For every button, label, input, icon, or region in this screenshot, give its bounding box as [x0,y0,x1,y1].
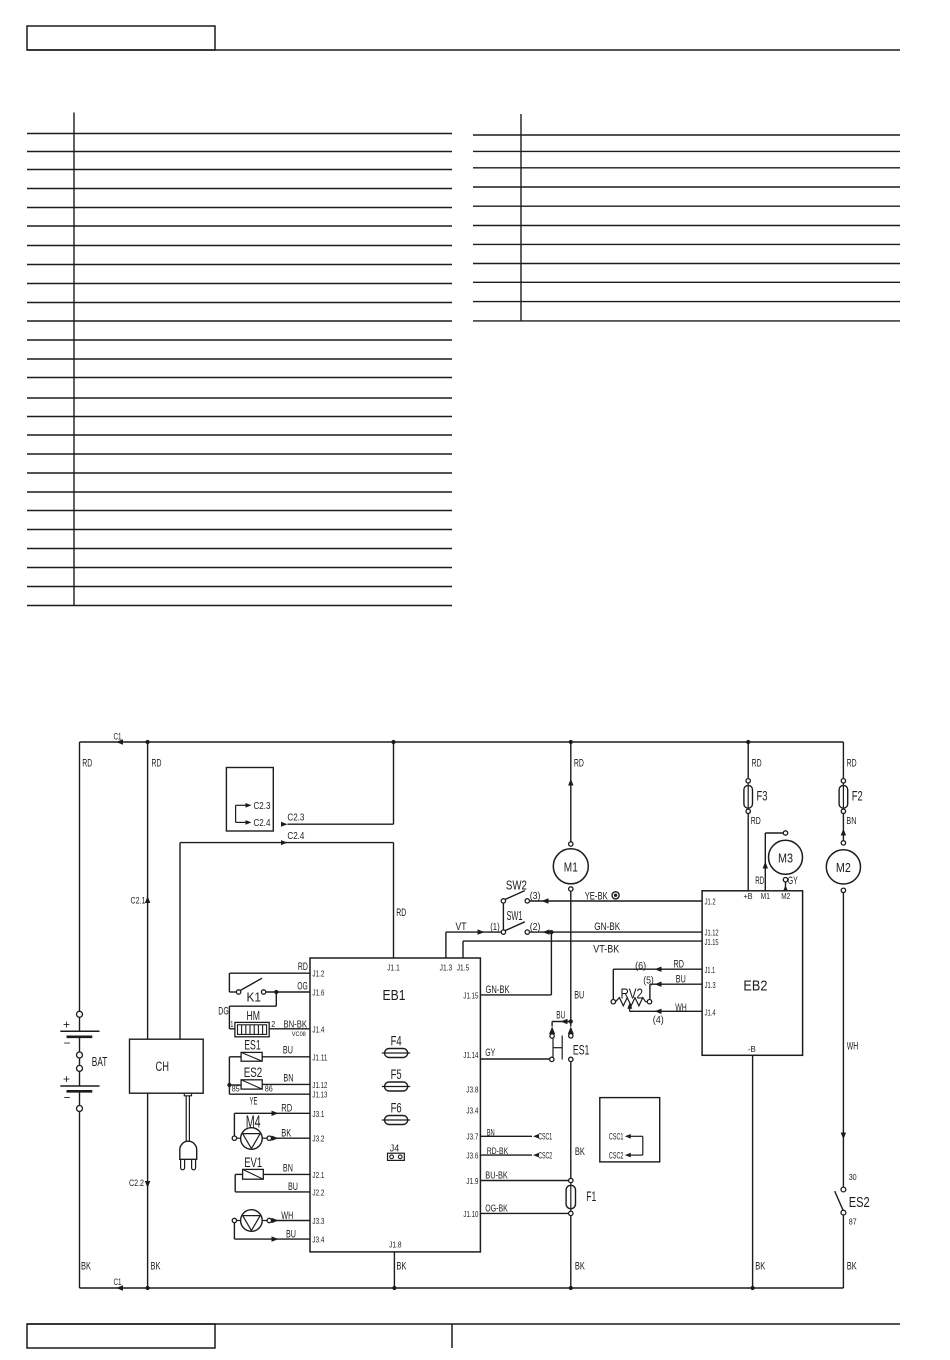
svg-text:J1.11: J1.11 [312,1052,327,1062]
svg-text:BN: BN [283,1162,293,1174]
svg-text:87: 87 [849,1216,857,1226]
svg-text:BU: BU [288,1181,298,1193]
svg-text:C2.2: C2.2 [129,1178,144,1188]
svg-text:RD: RD [752,758,762,770]
svg-text:85: 85 [232,1084,240,1093]
svg-text:CSC2: CSC2 [609,1150,624,1160]
svg-text:DG: DG [218,1005,229,1017]
svg-text:(2): (2) [530,921,541,933]
svg-text:GN-BK: GN-BK [486,984,510,996]
svg-text:BU: BU [556,1010,565,1022]
svg-text:WH: WH [847,1040,859,1052]
svg-text:BK: BK [281,1128,291,1140]
svg-text:RV2: RV2 [621,987,644,1003]
svg-text:J1.1: J1.1 [387,962,400,972]
svg-text:SW2: SW2 [506,879,527,893]
svg-text:ES1: ES1 [244,1037,261,1052]
svg-text:K1: K1 [247,989,262,1004]
svg-text:(6): (6) [635,960,646,972]
svg-text:RD: RD [281,1102,292,1114]
svg-text:OG-BK: OG-BK [485,1202,508,1214]
svg-text:ES1: ES1 [573,1042,590,1058]
svg-text:C2.4: C2.4 [254,818,271,829]
svg-text:VC08: VC08 [292,1031,306,1038]
svg-text:RD: RD [755,875,764,887]
svg-text:BK: BK [151,1261,161,1273]
svg-text:C2.3: C2.3 [287,813,304,824]
svg-text:VT-BK: VT-BK [593,943,620,955]
svg-text:J1.8: J1.8 [389,1240,402,1250]
svg-text:BU-BK: BU-BK [485,1169,508,1181]
svg-text:−: − [64,1091,71,1105]
svg-text:86: 86 [265,1084,273,1093]
svg-text:M1: M1 [761,892,770,901]
svg-text:F3: F3 [757,788,768,803]
svg-text:J3.4: J3.4 [312,1235,324,1245]
svg-text:GY: GY [485,1047,495,1059]
svg-text:+: + [63,1018,70,1032]
svg-text:BK: BK [575,1146,585,1158]
svg-text:F4: F4 [391,1033,402,1048]
svg-text:M1: M1 [564,859,578,874]
svg-text:2: 2 [271,1019,275,1029]
svg-text:J3.3: J3.3 [312,1216,324,1226]
svg-text:EB1: EB1 [383,987,406,1004]
svg-text:CSC1: CSC1 [538,1132,552,1142]
svg-text:RD: RD [298,961,308,973]
svg-text:+: + [63,1072,70,1086]
svg-text:J1.6: J1.6 [312,988,324,998]
svg-text:ES2: ES2 [849,1195,870,1211]
svg-text:(1): (1) [490,921,500,933]
svg-text:BN: BN [283,1072,293,1084]
svg-text:C2.4: C2.4 [287,831,304,842]
svg-text:(3): (3) [530,890,541,902]
svg-text:J3.2: J3.2 [312,1134,324,1144]
svg-text:J1.2: J1.2 [705,898,716,907]
svg-text:CSC1: CSC1 [609,1132,624,1142]
svg-text:J1.2: J1.2 [312,969,324,979]
svg-text:RD: RD [674,959,685,971]
svg-text:J1.3: J1.3 [440,962,453,972]
svg-text:CSC2: CSC2 [538,1150,552,1160]
svg-text:VT: VT [456,921,467,933]
svg-text:RD: RD [82,758,92,770]
svg-text:J1.1: J1.1 [705,966,716,975]
svg-text:YE-BK: YE-BK [585,890,608,902]
svg-text:−: − [64,1036,71,1050]
svg-text:RD-BK: RD-BK [487,1146,509,1156]
svg-text:OG: OG [297,980,308,992]
svg-text:M2: M2 [836,860,851,875]
svg-text:RD: RD [574,758,584,770]
svg-text:BK: BK [575,1261,585,1273]
svg-text:BK: BK [81,1261,91,1273]
svg-text:J1.10: J1.10 [463,1209,478,1219]
svg-text:BN: BN [846,815,856,827]
svg-text:-B: -B [748,1044,756,1054]
svg-text:(4): (4) [653,1014,664,1026]
svg-text:BU: BU [574,990,584,1002]
svg-text:BU: BU [283,1044,293,1056]
svg-text:(5): (5) [643,975,654,987]
svg-text:J1.15: J1.15 [705,938,719,947]
svg-text:J2.1: J2.1 [312,1170,324,1180]
svg-text:J3.7: J3.7 [466,1132,478,1142]
svg-text:J1.9: J1.9 [466,1176,478,1186]
svg-text:J1.3: J1.3 [705,981,716,990]
svg-text:RD: RD [847,758,857,770]
svg-text:J1.12: J1.12 [705,929,719,938]
svg-text:YE: YE [250,1095,258,1107]
svg-text:WH: WH [675,1002,687,1014]
svg-text:BK: BK [847,1261,857,1273]
svg-text:BN-BK: BN-BK [284,1020,308,1031]
svg-text:J3.6: J3.6 [466,1151,478,1161]
svg-text:C2.3: C2.3 [254,801,271,812]
svg-text:J1.4: J1.4 [705,1009,716,1018]
svg-text:J1.12: J1.12 [312,1080,327,1090]
svg-text:BU: BU [286,1228,296,1240]
svg-text:J4: J4 [390,1143,400,1154]
svg-text:CH: CH [156,1059,170,1074]
svg-text:J3.4: J3.4 [466,1106,478,1116]
svg-text:J1.15: J1.15 [463,990,478,1000]
svg-text:RD: RD [396,907,406,919]
svg-text:C1: C1 [114,1277,122,1288]
svg-text:J3.1: J3.1 [312,1109,324,1119]
svg-text:M3: M3 [778,850,793,865]
svg-text:J1.14: J1.14 [463,1050,478,1060]
svg-text:GY: GY [788,875,798,887]
svg-text:J1.5: J1.5 [457,962,470,972]
svg-text:F5: F5 [391,1067,402,1082]
svg-text:F1: F1 [586,1189,596,1204]
svg-text:+B: +B [744,892,753,901]
svg-text:F2: F2 [852,788,863,803]
svg-text:HM: HM [247,1008,261,1023]
svg-text:BK: BK [396,1261,406,1273]
svg-text:M2: M2 [781,892,790,901]
svg-text:ES2: ES2 [244,1065,263,1080]
svg-text:J3.8: J3.8 [466,1085,478,1095]
svg-text:EB2: EB2 [743,977,767,994]
svg-text:BK: BK [755,1261,765,1273]
svg-text:30: 30 [849,1172,857,1182]
svg-text:J2.2: J2.2 [312,1187,324,1197]
svg-text:BN: BN [487,1128,495,1138]
svg-text:BAT: BAT [92,1054,108,1069]
svg-text:1: 1 [230,1019,233,1029]
svg-text:EV1: EV1 [244,1155,262,1170]
svg-text:SW1: SW1 [507,909,523,923]
svg-text:RD: RD [751,815,761,827]
svg-text:M4: M4 [246,1112,261,1132]
svg-text:C2.1: C2.1 [131,895,146,905]
svg-text:F6: F6 [391,1100,402,1115]
svg-text:WH: WH [281,1210,293,1222]
svg-text:GN-BK: GN-BK [594,921,620,933]
svg-text:RD: RD [152,758,162,770]
svg-text:J1.4: J1.4 [312,1024,324,1034]
svg-text:C1: C1 [114,732,122,743]
svg-text:BU: BU [676,973,686,985]
svg-text:J1.13: J1.13 [312,1090,327,1100]
